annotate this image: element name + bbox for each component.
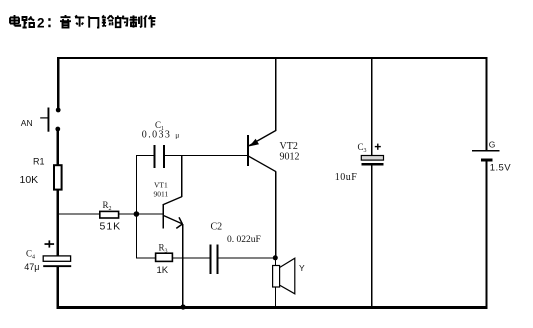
wire C3 to bottom rail xyxy=(371,166,373,307)
wire right rail upper (top rail to battery) xyxy=(485,58,487,151)
svg-text:0. 022uF: 0. 022uF xyxy=(227,235,261,245)
capacitor C4 top plate (hollow) xyxy=(43,256,70,261)
svg-text:Y: Y xyxy=(299,263,305,273)
wire C3 vertical from top rail xyxy=(371,58,373,156)
门 xyxy=(88,16,98,27)
wire C2 to speaker node xyxy=(219,257,276,258)
switch AN actuator bar xyxy=(48,108,50,132)
wire left rail (node to C4) xyxy=(57,214,59,257)
node junction VT1 emitter/bottom rail xyxy=(181,304,186,309)
node junction R2/VT1 base xyxy=(134,211,140,217)
乐 xyxy=(75,15,84,26)
wire node to R2 xyxy=(58,213,100,214)
svg-text:1.5V: 1.5V xyxy=(490,162,511,173)
wire left rail (switch to R1) xyxy=(57,128,59,166)
svg-text:10uF: 10uF xyxy=(335,172,358,183)
wire VT2 collector vertical drop xyxy=(275,172,276,259)
transistor VT1 base bar xyxy=(162,204,164,228)
svg-text:10K: 10K xyxy=(20,174,39,186)
wire right rail lower (battery to bottom rail) xyxy=(485,161,487,306)
labels xyxy=(20,118,45,261)
capacitor C3 top plate (hollow) xyxy=(361,156,383,161)
svg-text:G: G xyxy=(489,140,496,150)
capacitor C4 bottom plate xyxy=(43,265,71,267)
capacitor C1 left plate xyxy=(154,145,156,168)
音 xyxy=(60,15,71,28)
svg-text:47μ: 47μ xyxy=(24,262,39,272)
制 xyxy=(130,15,142,27)
capacitor C3 bottom plate xyxy=(361,163,383,165)
wire top rail xyxy=(57,57,488,59)
node switch bottom terminal xyxy=(55,127,60,132)
svg-text:R1: R1 xyxy=(33,157,45,167)
作 xyxy=(144,15,156,27)
svg-text:0.033 μ: 0.033 μ xyxy=(142,130,181,141)
wire VT2 emitter vertical to top rail xyxy=(275,58,277,131)
capacitor C1 right plate xyxy=(163,145,165,168)
capacitor C2 left plate xyxy=(210,245,212,275)
transistor VT2 base bar xyxy=(247,135,249,166)
resistor R1 body xyxy=(54,165,62,189)
transistor VT1 emitter diagonal xyxy=(163,215,182,224)
svg-text:2: 2 xyxy=(37,16,45,31)
svg-text:1K: 1K xyxy=(157,265,169,276)
svg-text:51K: 51K xyxy=(100,220,122,232)
speaker Y cone xyxy=(280,258,295,294)
wire junction to VT1 base xyxy=(137,213,163,214)
title 电路2：音乐门铃的制作 (drawn strokes, CJK not available) xyxy=(10,15,156,31)
wire VT1 collector vertical drop xyxy=(181,155,182,197)
svg-text:C4: C4 xyxy=(26,249,35,261)
wire speaker vertical to bottom rail xyxy=(275,258,276,307)
node switch top terminal xyxy=(56,108,61,113)
svg-text:VT2: VT2 xyxy=(280,141,298,152)
wire bottom rail xyxy=(57,306,488,309)
battery G long plate xyxy=(472,150,500,151)
transistor VT2 emitter arrow xyxy=(249,139,259,147)
svg-text:C2: C2 xyxy=(211,221,223,232)
2: xyxy=(37,16,51,31)
wire R3 to C2 xyxy=(172,257,210,258)
transistor VT1 collector diagonal xyxy=(163,197,182,205)
svg-text:9011: 9011 xyxy=(154,190,169,199)
transistor VT2 emitter diagonal xyxy=(249,130,276,145)
的 xyxy=(116,16,128,28)
battery G short plate xyxy=(481,159,493,162)
svg-text:R2: R2 xyxy=(103,200,112,212)
wire left rail bottom (C4 to bottom rail) xyxy=(57,267,59,307)
wire R2 to junction xyxy=(119,213,138,214)
transistor VT2 collector diagonal xyxy=(249,156,276,171)
wire branch to R3 xyxy=(136,257,156,258)
wire left rail (R1 to node) xyxy=(57,190,59,216)
路 xyxy=(23,17,35,28)
svg-text:9012: 9012 xyxy=(280,152,300,163)
svg-text:VT1: VT1 xyxy=(154,181,168,190)
node junction C2/speaker xyxy=(273,255,278,260)
svg-text:AN: AN xyxy=(21,118,33,128)
铃 xyxy=(102,15,114,26)
wire C1 to VT2 base xyxy=(165,155,249,156)
switch AN push-button xyxy=(40,108,60,132)
resistor R2 body xyxy=(100,211,119,218)
电 xyxy=(10,15,20,26)
wire branch to C1 left plate xyxy=(136,155,155,156)
switch AN push rod xyxy=(40,117,47,118)
resistor R3 body xyxy=(156,253,173,261)
speaker Y box xyxy=(273,266,280,288)
wire left rail upper (top rail to switch) xyxy=(57,57,59,111)
capacitor C2 right plate xyxy=(217,245,219,275)
wire VT1 emitter vertical to ground xyxy=(182,224,183,306)
transistor VT1 emitter arrow xyxy=(176,217,182,228)
wires and components xyxy=(57,57,500,309)
wire feedback branch vertical xyxy=(136,155,137,258)
svg-text:C3: C3 xyxy=(358,142,367,154)
